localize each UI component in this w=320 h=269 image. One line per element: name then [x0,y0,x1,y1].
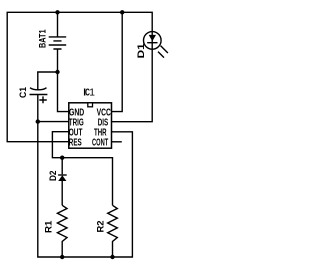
svg-text:CONT: CONT [92,138,109,149]
svg-text:C1: C1 [18,86,29,98]
svg-text:D1: D1 [136,43,147,59]
svg-text:RES: RES [69,138,82,149]
svg-text:D2: D2 [48,171,59,182]
svg-text:R2: R2 [95,221,106,233]
svg-text:R1: R1 [43,220,54,233]
svg-text:1: 1 [89,88,95,99]
svg-text:BAT1: BAT1 [37,29,48,48]
